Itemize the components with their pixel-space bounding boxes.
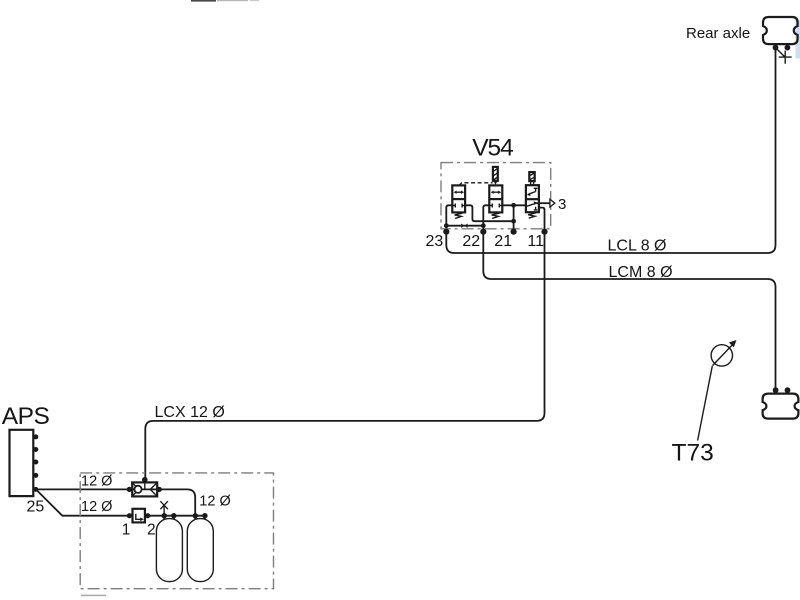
- svg-text:APS: APS: [2, 403, 50, 430]
- valve V54-C body (solenoid 3/2): [526, 185, 539, 212]
- svg-text:Rear axle: Rear axle: [686, 25, 750, 42]
- cropped header artifact: [191, 0, 259, 2]
- pressure limiter valve: [133, 509, 145, 523]
- svg-text:1: 1: [122, 521, 131, 538]
- valve V54-A body (pilot operated 3/2): [452, 185, 465, 212]
- wire APS port 25 branch to limiter valve: [37, 490, 130, 516]
- wire APS port 25 to check valve: [36, 488, 130, 490]
- tank manifold dots: [162, 513, 208, 518]
- wire LCM (V54 port 22 to lower bellows): [483, 205, 775, 390]
- wire tank manifold: [148, 515, 205, 517]
- wire check valve to tank 2 riser: [159, 489, 195, 515]
- svg-text:12 Ø: 12 Ø: [81, 499, 112, 515]
- svg-text:3: 3: [558, 196, 566, 213]
- footer artifact: [81, 595, 106, 597]
- svg-text:22: 22: [462, 233, 480, 250]
- junction node 23 upper: [444, 223, 449, 228]
- wire valve A right port to node 21 riser: [465, 205, 513, 221]
- svg-text:V54: V54: [472, 135, 513, 162]
- V54 port dots 23 22 21 11: [443, 229, 547, 235]
- check valve port dots: [127, 477, 162, 492]
- svg-text:LCX 12 Ø: LCX 12 Ø: [155, 404, 225, 421]
- valve V54-A pilot line (dashed): [459, 183, 493, 186]
- leader line T73: [698, 366, 713, 441]
- svg-text:2: 2: [147, 521, 156, 538]
- wire valve C outlet to exhaust 3: [536, 202, 550, 204]
- vent cross X: [160, 501, 168, 516]
- svg-text:T73: T73: [672, 439, 714, 466]
- drain branch with vent cross: [777, 49, 792, 64]
- limiter port dots: [127, 513, 150, 518]
- tank nipple stubs: [164, 516, 205, 520]
- APS pin dots: [33, 434, 38, 492]
- wire valve A left port to node 23: [446, 205, 452, 225]
- wire valve B right to valve C left: [502, 204, 526, 206]
- gauge / test point symbol: [711, 340, 736, 366]
- valve V54-C solenoid: [529, 172, 534, 185]
- svg-text:23: 23: [426, 233, 444, 250]
- valve V54-B body (solenoid 3/2): [489, 185, 502, 212]
- valve V54-A spring: [455, 213, 463, 218]
- junction node 22 upper: [481, 223, 486, 228]
- storage enclosure phantom box: [80, 473, 273, 589]
- svg-text:12 Ø: 12 Ø: [81, 473, 112, 489]
- svg-text:11: 11: [527, 233, 544, 250]
- valve V54-B spring: [492, 213, 500, 218]
- restriction check symbol: [461, 224, 464, 228]
- check valve assembly: [129, 480, 159, 496]
- wire LCL (V54 port 23 to rear axle bellows): [446, 48, 775, 253]
- wire node 21 stub: [513, 205, 515, 231]
- air bellows, rear axle upper: [763, 17, 798, 44]
- svg-text:21: 21: [494, 233, 512, 250]
- lower bellows ports: [773, 387, 791, 393]
- V54 enclosure phantom box: [441, 163, 551, 229]
- air bellows, rear axle lower: [763, 394, 799, 419]
- APS unit body: [10, 430, 34, 496]
- upper bellows ports: [773, 44, 791, 50]
- exhaust arrow 3: [550, 199, 555, 207]
- svg-text:25: 25: [27, 498, 45, 515]
- junction valve C feed: [511, 203, 516, 208]
- svg-text:12 Ø: 12 Ø: [199, 493, 230, 509]
- selection highlight strip: [796, 20, 800, 59]
- wire bypass with restriction (node 23 to node 22): [446, 225, 483, 227]
- junction on node 21 riser: [511, 219, 516, 224]
- valve V54-B solenoid: [493, 167, 498, 185]
- air tank 1: [156, 519, 182, 582]
- wire valve C drain to port 11 and LCX: [145, 208, 544, 479]
- air tank 2: [187, 519, 213, 582]
- svg-text:LCL 8 Ø: LCL 8 Ø: [608, 237, 667, 254]
- valve V54-C spring: [528, 213, 536, 218]
